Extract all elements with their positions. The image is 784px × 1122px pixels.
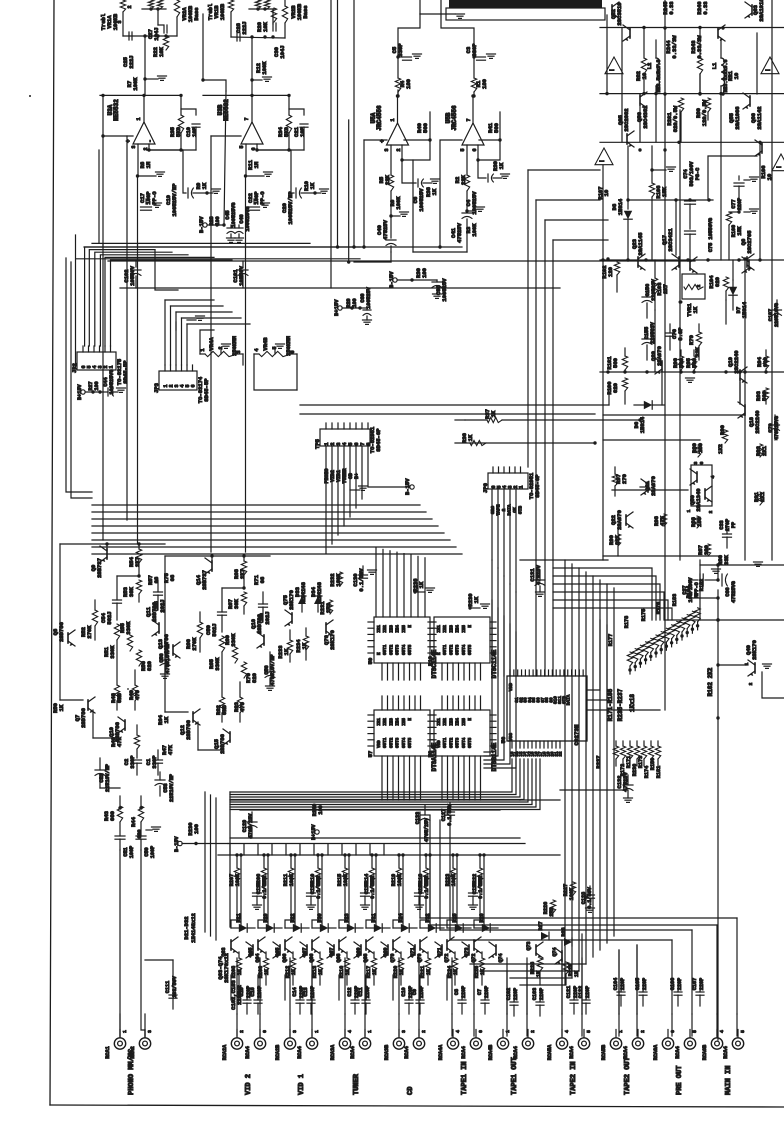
diode D34 1N4148 [314,596,322,604]
svg-text:E: E [468,718,473,721]
resistor R51 330K [114,624,119,640]
svg-text:IN1: IN1 [437,625,442,633]
svg-text:2: 2 [127,5,133,8]
wire U5A inputs [390,145,392,175]
wire horizontals bottom right [420,917,737,919]
resistor R24 (top, cut) [255,0,260,9]
svg-text:RCA3A: RCA3A [330,1044,336,1060]
RCA jack RCA5A (TAPE2 IN) [556,1038,567,1049]
svg-text:C167: C167 [692,978,698,990]
svg-text:OUT5: OUT5 [468,737,473,748]
wire long risers from pre/main jacks [671,940,673,1014]
svg-text:22K: 22K [384,174,391,185]
resistor R53 39K [136,580,141,594]
transistor Q54 on top rail [629,28,631,38]
svg-text:RCA4: RCA4 [623,1046,629,1058]
svg-text:Bass: Bass [193,7,200,20]
IC U6 C9273N switch controller [507,676,587,741]
RCA jack RCA5B (TAPE2 OUT) [610,1038,621,1049]
resistor R234 1K [303,636,308,650]
svg-text:D27: D27 [538,921,544,930]
svg-text:1: 1 [200,348,206,351]
wire left vertical into U3A [102,95,104,245]
svg-text:2SC3421: 2SC3421 [667,228,674,252]
svg-text:5: 5 [460,148,466,151]
diode D31 1N4148 [374,924,382,932]
wire node rail y200 [628,199,713,201]
svg-text:RH3.5x6x0.8: RH3.5x6x0.8 [656,59,662,92]
JFET Q64 2SK170 [252,945,254,955]
capacitor C10 10P [192,123,200,125]
svg-text:1: 1 [505,1030,511,1033]
wire bends up from bottom bus [419,812,421,918]
wire phono jack risers [119,850,121,1037]
resistor R37 1K [502,419,640,421]
svg-text:47U25VG: 47U25VG [731,581,737,603]
wire x224 drop [224,91,226,225]
svg-text:E: E [437,652,442,655]
svg-text:JP2: JP2 [71,363,78,373]
svg-text:PP: PP [731,522,737,528]
svg-text:1K: 1K [574,970,580,977]
svg-text:100K: 100K [451,873,457,886]
resistor R79 33K [696,332,701,346]
svg-text:U6: U6 [500,737,507,744]
JFET Q72 2SK170 [468,945,470,955]
svg-text:RCA4: RCA4 [723,1046,729,1058]
resistor R69 330K [232,647,237,663]
svg-text:2SK170x12: 2SK170x12 [223,953,230,983]
svg-text:22: 22 [560,751,564,757]
capacitor C60 202J [259,603,268,605]
svg-text:330: 330 [703,545,710,555]
svg-text:Q74: Q74 [498,953,504,962]
wire left vertical x71 [71,262,92,498]
transistor Q19 2SC2240 [739,370,741,380]
resistor R95 560 [691,356,696,370]
svg-text:2SD786: 2SD786 [151,602,158,622]
transistor Q17 2SC3421 [678,257,680,267]
svg-text:2M2: 2M2 [262,875,268,884]
capacitor C21 10P [300,123,308,125]
svg-text:JRC4556: JRC4556 [376,105,383,131]
svg-text:SD45-6P: SD45-6P [375,428,382,452]
wire bundle mid-left horizontals to switch matrix [92,504,420,506]
svg-text:R90: R90 [719,425,726,435]
transistor Q15 2SD786 (lower) [229,732,231,742]
svg-text:RCA4: RCA4 [245,1046,251,1058]
svg-text:2SD786: 2SD786 [80,708,87,728]
svg-text:1K: 1K [345,968,351,975]
svg-text:C15: C15 [239,987,245,996]
svg-text:33K: 33K [723,554,730,565]
svg-text:3: 3 [693,461,699,464]
svg-text:2SD786: 2SD786 [219,734,226,754]
svg-text:RCA2B: RCA2B [275,1045,281,1061]
svg-text:560: 560 [422,123,429,133]
wire JP3 bundle up [165,299,214,301]
svg-text:202J: 202J [264,611,271,624]
svg-text:1K: 1K [309,182,316,189]
nested bus horizontals to tape jacks [520,984,565,986]
svg-text:1N914: 1N914 [639,416,646,433]
connector JP2 TO-83175 SD45-5P [77,352,116,370]
svg-text:IN5: IN5 [462,625,467,633]
svg-text:0.1/50V: 0.1/50V [587,886,593,909]
wire mux rails down-drops [230,975,232,1000]
svg-text:OUT1: OUT1 [383,644,388,655]
svg-text:2: 2 [396,148,402,151]
wire U5B feedback loop R41 [479,139,500,141]
wire U3A feedback box [181,95,196,115]
svg-text:SD45-5P: SD45-5P [203,378,210,402]
svg-text:5: 5 [586,1030,592,1033]
svg-text:4: 4 [347,1030,353,1033]
svg-text:10K: 10K [158,46,165,57]
svg-text:C121: C121 [566,986,572,998]
diode D32 1N4148 [428,924,436,932]
inductor L1 RH3.5x6x0.8 [721,58,725,86]
capacitor C30 104J [272,9,274,24]
wire L to op-amp rail [203,80,226,91]
emitter resistor R244 0.33/3W [643,28,645,58]
resistor R55 330K [127,635,132,651]
svg-text:2K1: 2K1 [761,445,768,456]
svg-text:2SD786: 2SD786 [256,614,263,634]
capacitor C60? 470U16V/NP [265,671,275,673]
svg-text:IN4: IN4 [396,625,401,633]
analog switch IC U10 DTSC114E [434,617,490,663]
capacitor C3 330P [477,56,486,58]
JFET Q71 2SK170 [446,940,448,950]
transistor Q95 on rail142 [626,134,628,144]
JFET Q70 2SK170 [387,945,389,955]
RCA jack RCA4 (TAPE1 OUT) [522,1038,533,1049]
RCA jack RCA4 (TAPE1 IN) [470,1038,481,1049]
svg-text:JP6: JP6 [482,483,489,493]
svg-text:RCA4: RCA4 [350,1046,356,1058]
wire power rail mid y94 [600,93,784,95]
pull-up resistor R218 2M2 [423,868,428,882]
resistor R101-R? vertical stubs below U6 [613,746,618,759]
resistor R109 15K [729,211,739,213]
analog switch IC U9 DTSC114E [374,617,430,663]
capacitor C77 220P [734,182,744,184]
transistor Q10 2SD786 (lower) [124,720,126,730]
svg-text:R178: R178 [624,616,630,628]
JFET Q69 2SK170 [392,940,394,950]
wire bottom rail U5A [354,261,391,263]
svg-text:+: + [125,139,132,143]
svg-text:1: 1 [136,117,142,120]
wire power rail y556 [603,555,718,557]
svg-text:IN2: IN2 [443,718,448,726]
capacitor C155 220U63V [642,338,652,340]
svg-text:VR4B: VR4B [262,337,269,351]
gate resistor R220 1K [398,958,403,972]
wire vertical x127 from op-amp area down [126,136,128,520]
transistor Q9 2SB737 [106,549,108,559]
page bottom border [50,1105,784,1107]
svg-text:C7: C7 [477,989,483,995]
resistor R97 270 [612,474,617,486]
capacitor C6 100U25V [402,160,416,183]
JFET Q40 2SK170 [754,663,756,673]
capacitor C37 103/160V MPP-O [699,574,701,586]
pot VR1A (Treble) 100KB [120,0,125,12]
svg-text:2M2: 2M2 [325,603,332,613]
wire power vertical x622 [621,28,623,142]
wire power rail y440 [603,439,700,441]
resistor R98 47K [661,514,666,526]
RCA jack RCA2 (PHONO MM/MC) [139,1038,150,1049]
svg-text:100K: 100K [289,873,295,886]
svg-text:OUT3: OUT3 [396,644,401,655]
wire power vertical x700 upper [699,74,701,94]
svg-text:6: 6 [191,384,197,387]
emitter resistor R243 0.33/3W [699,28,701,58]
svg-text:R171-R185: R171-R185 [607,688,614,721]
svg-text:R237: R237 [595,755,602,768]
JFET Q74 symbol [561,951,563,961]
wire mux rail dots [239,853,242,856]
ground above JP3 [187,319,196,321]
resistor R99 82K [615,534,620,546]
RCA jack RCA4B (TAPE1 OUT) [497,1038,508,1049]
svg-text:Q73: Q73 [464,947,470,956]
svg-text:TAPE2 OUT: TAPE2 OUT [624,1057,632,1095]
capacitor C46 100U25VG [235,227,243,229]
resistor R39 1K + C4 [478,160,486,178]
resistor R101 560 [622,356,627,370]
svg-text:10P: 10P [191,126,198,137]
svg-text:OUT4: OUT4 [462,644,467,655]
wire verticals between switch area and mux [229,844,231,855]
JFET Q65 2SK170 [257,940,259,950]
svg-text:C8: C8 [454,989,460,995]
terminal B+15V mux [315,830,319,834]
svg-text:OUT2: OUT2 [389,737,394,748]
svg-text:39K: 39K [233,598,240,609]
svg-text:47U25V: 47U25V [382,219,389,240]
svg-text:TAPE1 IN: TAPE1 IN [461,1061,469,1095]
svg-text:100K: 100K [343,873,349,886]
svg-text:2M2: 2M2 [316,875,322,884]
svg-text:1K: 1K [473,596,480,603]
svg-text:0.33: 0.33 [702,1,709,15]
wire rail y260 [600,259,784,261]
svg-text:5: 5 [239,145,245,148]
svg-text:U7: U7 [367,751,374,758]
resistor R94 960 [763,356,768,369]
svg-text:10U50V: 10U50V [129,265,136,286]
svg-text:R177: R177 [608,634,614,646]
resistor R70 820 [241,662,246,678]
svg-text:330K: 330K [125,621,132,635]
JFET Q66 2SK170 [279,945,281,955]
op-amp U5B JRC4556 [462,123,484,145]
svg-text:OUT1: OUT1 [383,737,388,748]
svg-text:1M: 1M [145,161,152,168]
gate resistor R216 1K [344,958,349,972]
diode D24 1N4148 [401,924,409,932]
svg-text:1K: 1K [467,434,474,441]
JFET Q67 2SK170 [338,940,340,950]
svg-text:220P: 220P [484,986,490,998]
RCA jack RCA2A (VID 2) [231,1038,242,1049]
resistor R201 820/0.5W [678,98,683,112]
resistor R34 5K6 [286,115,291,133]
resistor R232 100K [337,572,342,586]
wire U3A output up to rail [143,95,145,122]
wire x603 vertical [602,165,604,260]
capacitor C101 10U50V [242,261,244,267]
wire U6 to bus bends [587,620,600,690]
svg-text:100K: 100K [235,873,241,886]
svg-text:RCA4: RCA4 [404,1046,410,1058]
svg-text:2SC2240: 2SC2240 [754,410,761,433]
svg-text:TP5: TP5 [314,438,321,449]
svg-text:15K: 15K [661,186,668,197]
trimmer TVR1 1K [682,274,705,299]
wire U5B inputs [466,145,468,175]
capacitor C128 0.1/50V [586,894,595,896]
svg-text:1K2: 1K2 [717,444,724,454]
resistor R56 820 [136,650,141,666]
pot VR4B 250KMM [254,353,259,355]
svg-text:U8: U8 [427,750,434,757]
ground right of C50 [146,829,152,831]
resistor R54 2K7 [136,549,141,563]
svg-text:3: 3 [236,350,242,353]
svg-text:0.1/50V: 0.1/50V [358,568,365,592]
svg-text:820/0.5W: 820/0.5W [672,105,679,132]
capacitor C33 270P PP [723,533,732,535]
JFET Q72 2SK170 [441,945,443,955]
svg-text:10: 10 [641,73,648,80]
svg-text:100: 100 [421,268,428,278]
wire Q9 collector rail [60,543,165,545]
wire bundle JP6 down [491,489,493,560]
gate resistor R225 1K [479,958,484,972]
pot VR2A (Bass) 100KB [174,0,179,17]
svg-text:Q71: Q71 [410,947,416,956]
svg-text:2SB737: 2SB737 [96,558,103,578]
svg-text:2: 2 [421,1030,427,1033]
transistor Q18 2SC2240 [744,405,746,415]
capacitor C7 220P [481,999,489,1001]
wire input rail y247 [84,246,462,248]
ground right of C77 [744,179,750,181]
svg-text:2K7: 2K7 [662,284,669,294]
svg-text:470: 470 [134,690,141,700]
svg-text:2SK170: 2SK170 [329,630,336,650]
svg-text:1K: 1K [431,188,438,195]
svg-text:RCA3B: RCA3B [384,1045,390,1061]
svg-text:1: 1 [519,485,525,488]
svg-text:-: - [147,139,154,143]
svg-text:620: 620 [612,383,619,393]
wire x721 vertical mid [720,142,722,260]
svg-text:0.33/3W: 0.33/3W [696,35,703,59]
wire bundle JP6 continues down to U8 side [484,600,492,752]
svg-text:68: 68 [169,574,176,581]
RCA jack RCA6B (MAIN IN) [711,1038,722,1049]
svg-text:47K: 47K [659,515,666,526]
svg-text:1: 1 [390,118,396,121]
resistor R239 1K [470,607,480,609]
resistor R231 2M2 [327,600,332,614]
svg-text:220U16VG: 220U16VG [774,303,780,327]
svg-text:1: 1 [314,1030,320,1033]
ground below R12 [252,79,262,81]
wire risers tape jacks to bottom-right bus [506,971,508,1014]
JFET Q71 2SK170 [419,940,421,950]
capacitor C55 202J [154,591,163,593]
wire bus from JP2 up (staircase bends right) [85,247,360,346]
svg-text:B-15V: B-15V [404,478,411,495]
capacitor C13 220P [307,999,315,1001]
transistor Q14 2SB737 [211,561,213,571]
wire feed to headphone amps [398,14,420,55]
svg-text:DATA: DATA [567,694,572,705]
wire bundle from JP3 pins up [164,300,166,365]
svg-text:620: 620 [714,277,721,287]
diode D33 1N4148 [298,596,306,604]
svg-text:1: 1 [686,509,692,512]
svg-text:100U25V: 100U25V [418,188,425,212]
capacitor C9 220P [416,999,424,1001]
wire power rail top y28 [600,27,784,29]
svg-text:JRC4556: JRC4556 [451,105,458,131]
svg-text:IN1: IN1 [377,718,382,726]
JFET Q70 2SK170 [414,945,416,955]
svg-text:Q67: Q67 [329,947,335,956]
svg-text:C163: C163 [532,988,538,1000]
svg-text:PP-O: PP-O [151,191,158,205]
ground bottom driver [712,568,721,570]
svg-text:R235-R237: R235-R237 [617,688,624,721]
ground right of R9 [207,192,213,194]
wire left vertical x66 [66,258,92,492]
transistor Q66 on rail260 right [748,260,750,270]
svg-text:120/0.5W: 120/0.5W [701,99,708,126]
capacitor C11 220P [362,999,370,1001]
wire driver stage verticals [654,310,656,372]
svg-text:100K: 100K [569,887,575,900]
ground top center [419,0,421,14]
capacitor C129 470U/25V [247,821,257,823]
wire to R7 node [144,36,146,95]
svg-text:220P: 220P [513,988,519,1000]
svg-text:C11: C11 [358,987,364,996]
pot VR2B (Bass) 100KB [282,6,287,23]
RCA jack RCA4 (TAPE2 OUT) [632,1038,643,1049]
svg-text:330P: 330P [151,755,158,769]
resistor R43 680 [117,806,122,822]
wire power vertical x640 [639,106,641,142]
svg-text:C164: C164 [613,978,619,990]
capacitor C166 220P [674,991,682,993]
svg-text:100K: 100K [261,61,268,75]
svg-text:E: E [468,625,473,628]
svg-text:100: 100 [352,298,358,307]
svg-text:C166: C166 [670,978,676,990]
svg-text:100P: 100P [129,846,135,858]
scan speck top-left margin [29,95,31,97]
pull-up resistor R222 2M2 [477,868,482,882]
wire rail y620 right [665,619,784,621]
